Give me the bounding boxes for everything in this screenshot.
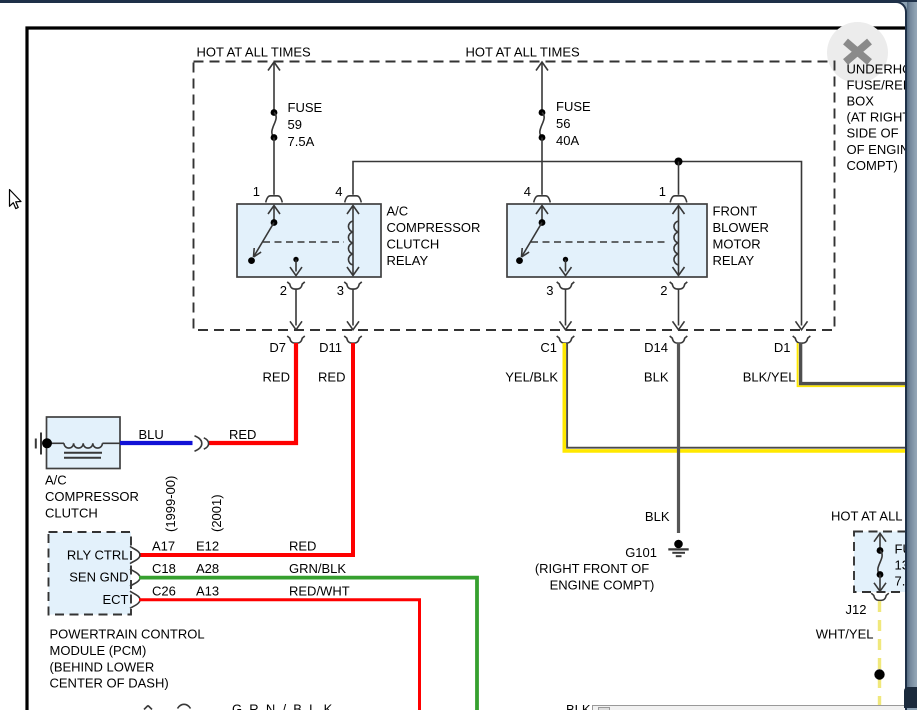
svg-text:7.5A: 7.5A	[288, 134, 315, 149]
connector D14	[670, 336, 688, 343]
svg-text:COMPRESSOR: COMPRESSOR	[387, 220, 481, 235]
scrollbar dark bottom corner	[904, 687, 917, 708]
svg-text:BLK: BLK	[644, 370, 669, 385]
svg-text:56: 56	[556, 116, 570, 131]
wire pin 3 to connector D11	[352, 289, 354, 325]
svg-text:FUSE/RELAY: FUSE/RELAY	[847, 77, 908, 92]
svg-text:D7: D7	[269, 340, 286, 355]
svg-text:13: 13	[895, 557, 908, 572]
svg-text:CLUTCH: CLUTCH	[387, 237, 440, 252]
junction node on WHT/YEL wire	[874, 669, 884, 679]
wire YEL/BLK from C1 (yellow part)	[564, 343, 917, 451]
svg-text:ECT: ECT	[103, 592, 129, 607]
svg-text:D1: D1	[774, 340, 791, 355]
connector D11	[344, 336, 362, 343]
inline connector (double arc)	[195, 436, 202, 451]
wire GRN/BLK from SEN GND	[139, 578, 477, 710]
svg-text:BOX: BOX	[847, 94, 875, 109]
svg-text:BLU: BLU	[139, 427, 164, 442]
svg-text:40A: 40A	[556, 133, 579, 148]
svg-text:(2001): (2001)	[209, 494, 224, 532]
pin 2 terminal of A/C relay	[287, 282, 305, 289]
svg-text:SIDE OF: SIDE OF	[847, 126, 899, 141]
PCM terminal RLY CTRL	[130, 546, 140, 563]
svg-text:FUSE: FUSE	[288, 100, 323, 115]
svg-text:A28: A28	[196, 561, 219, 576]
svg-text:C18: C18	[152, 561, 176, 576]
wire fuse 59 to relay pin 1	[273, 138, 275, 195]
svg-text:HOT AT ALL TIMES: HOT AT ALL TIMES	[831, 509, 907, 524]
svg-text:FUSE: FUSE	[556, 99, 591, 114]
svg-text:GRN/BLK: GRN/BLK	[232, 702, 339, 710]
svg-text:UNDERHOOD: UNDERHOOD	[847, 61, 908, 76]
svg-text:2: 2	[660, 283, 667, 298]
svg-text:BLK: BLK	[645, 509, 670, 524]
svg-text:WHT/YEL: WHT/YEL	[816, 627, 874, 642]
PCM terminal SEN GND	[130, 569, 140, 586]
svg-text:RELAY: RELAY	[387, 253, 429, 268]
svg-text:1: 1	[659, 184, 666, 199]
pin 3 terminal of A/C relay	[344, 282, 362, 289]
mouse cursor	[10, 190, 22, 209]
wire YEL/BLK from C1 (black tracer)	[567, 343, 917, 448]
relay K2 body (front blower motor relay)	[507, 204, 707, 277]
svg-text:(RIGHT FRONT OF: (RIGHT FRONT OF	[535, 561, 649, 576]
wire BLU from clutch to inline connector	[120, 441, 193, 445]
svg-text:FUSE: FUSE	[895, 541, 908, 556]
svg-text:RELAY: RELAY	[713, 253, 755, 268]
svg-text:D14: D14	[644, 340, 668, 355]
svg-text:G101: G101	[625, 545, 657, 560]
svg-text:A13: A13	[196, 584, 219, 599]
relay K1 switch contact	[268, 206, 280, 215]
connector D1	[793, 336, 811, 343]
PCM terminal ECT	[130, 591, 140, 608]
svg-text:59: 59	[288, 117, 302, 132]
connector J12	[871, 593, 889, 600]
svg-text:SEN GND: SEN GND	[69, 570, 128, 585]
svg-text:A/C: A/C	[387, 204, 409, 219]
wire fuse 56 to blower relay pin 4	[541, 138, 543, 195]
scrollbar strip	[907, 0, 917, 708]
svg-text:CENTER OF DASH): CENTER OF DASH)	[50, 676, 169, 691]
pin 1 terminal of blower relay	[670, 196, 687, 203]
A/C compressor clutch body	[47, 417, 121, 469]
svg-text:POWERTRAIN CONTROL: POWERTRAIN CONTROL	[50, 627, 205, 642]
relay K1 internal dashed link	[263, 241, 344, 243]
relay K1 coil	[352, 206, 354, 275]
fuse box dashed (bottom right)	[854, 532, 912, 593]
wire pin 2 to connector D7	[295, 289, 297, 325]
wire BLK from D14 to ground	[677, 343, 680, 533]
svg-text:HOT AT ALL TIMES: HOT AT ALL TIMES	[466, 45, 580, 60]
svg-text:C1: C1	[540, 340, 557, 355]
underhood fuse/relay dashed box	[194, 62, 835, 331]
svg-text:RED: RED	[318, 370, 345, 385]
wire pin 2 to connector D14	[678, 289, 680, 325]
pin 3 terminal of blower relay	[557, 282, 575, 289]
wire fuse 13 to J12	[879, 575, 881, 592]
pin 4 terminal of blower relay	[534, 196, 551, 203]
svg-text:3: 3	[337, 283, 344, 298]
A/C clutch core lines	[64, 452, 102, 454]
A/C clutch case ground bars	[40, 433, 42, 455]
pin 1 terminal of A/C relay	[266, 196, 283, 203]
wire junction to blower relay pin 1	[678, 162, 680, 195]
svg-text:COMPRESSOR: COMPRESSOR	[45, 489, 139, 504]
close button X	[846, 42, 870, 63]
svg-text:1: 1	[253, 184, 260, 199]
svg-text:CLUTCH: CLUTCH	[45, 505, 98, 520]
svg-text:MODULE (PCM): MODULE (PCM)	[50, 643, 147, 658]
browser status bar	[592, 705, 907, 710]
svg-text:(BEHIND LOWER: (BEHIND LOWER	[50, 659, 155, 674]
wire pin 3 to connector C1	[565, 289, 567, 325]
svg-text:YEL/BLK: YEL/BLK	[505, 370, 558, 385]
wire BLK/YEL from D1 (yellow tracer)	[798, 343, 906, 386]
svg-text:(1999-00): (1999-00)	[163, 476, 178, 532]
svg-text:FRONT: FRONT	[713, 204, 758, 219]
A/C clutch case ground node	[42, 438, 52, 448]
relay K2 switch contact	[536, 206, 548, 215]
svg-text:RLY CTRL: RLY CTRL	[67, 547, 129, 562]
svg-text:(AT RIGHT: (AT RIGHT	[847, 110, 908, 125]
svg-text:A/C: A/C	[45, 473, 67, 488]
pin 2 terminal of blower relay	[670, 282, 688, 289]
wire coil-feed bus (A/C pin4 to D1)	[353, 162, 802, 326]
svg-text:GRN/BLK: GRN/BLK	[289, 561, 346, 576]
svg-text:C26: C26	[152, 584, 176, 599]
wire RED from D7 to A/C clutch splice	[209, 343, 296, 443]
connector C1	[557, 336, 575, 343]
svg-text:HOT AT ALL TIMES: HOT AT ALL TIMES	[197, 45, 311, 60]
wire fuse 13 feed	[874, 533, 886, 542]
relay K1 body (A/C compressor clutch relay)	[237, 204, 381, 277]
svg-text:BLOWER: BLOWER	[713, 220, 769, 235]
svg-text:4: 4	[335, 184, 342, 199]
svg-text:RED: RED	[289, 539, 316, 554]
svg-text:E12: E12	[196, 539, 219, 554]
A/C clutch coil	[51, 442, 64, 444]
svg-text:RED: RED	[229, 427, 256, 442]
svg-text:RED: RED	[263, 370, 290, 385]
svg-text:MOTOR: MOTOR	[713, 237, 761, 252]
svg-text:OF ENGINE: OF ENGINE	[847, 142, 908, 157]
close button circle (covers frame line)	[827, 22, 888, 83]
PCM dashed box	[49, 532, 132, 615]
ground G101 symbol	[674, 540, 683, 549]
junction node at blower pin 1 tap	[675, 158, 683, 166]
svg-text:ENGINE COMPT): ENGINE COMPT)	[550, 578, 655, 593]
wire fuse 56 feed from hot bus	[541, 63, 543, 113]
fuse F59	[271, 109, 278, 116]
relay K2 internal dashed link	[531, 241, 669, 243]
wire RED/WHT from ECT	[139, 600, 420, 710]
wire BLK/YEL from D1 (black part)	[801, 343, 906, 384]
relay K2 coil	[678, 206, 680, 275]
svg-text:D11: D11	[319, 340, 342, 355]
wire WHT/YEL from J12	[878, 601, 881, 710]
connector D7	[287, 336, 305, 343]
svg-text:J12: J12	[846, 602, 867, 617]
svg-text:BLK: BLK	[566, 702, 591, 710]
fuse F13	[877, 547, 884, 554]
wire RED from D11 to PCM RLY CTRL	[139, 343, 353, 555]
pin 4 terminal of A/C relay	[345, 196, 362, 203]
relay K2 pin 3 contact stub	[563, 257, 568, 262]
clipped connector at bottom edge	[178, 704, 191, 708]
svg-text:BLK/YEL: BLK/YEL	[743, 370, 796, 385]
svg-text:2: 2	[280, 283, 287, 298]
svg-text:RED/WHT: RED/WHT	[289, 584, 350, 599]
svg-text:4: 4	[524, 184, 531, 199]
fuse F56	[539, 109, 546, 116]
relay K1 pin 2 contact stub	[293, 257, 298, 262]
svg-text:COMPT): COMPT)	[847, 158, 898, 173]
svg-text:A17: A17	[152, 539, 175, 554]
svg-text:7.5A: 7.5A	[895, 573, 908, 588]
svg-text:3: 3	[546, 283, 553, 298]
wire fuse 59 feed from hot bus	[273, 63, 275, 113]
window top bar	[0, 0, 917, 2]
